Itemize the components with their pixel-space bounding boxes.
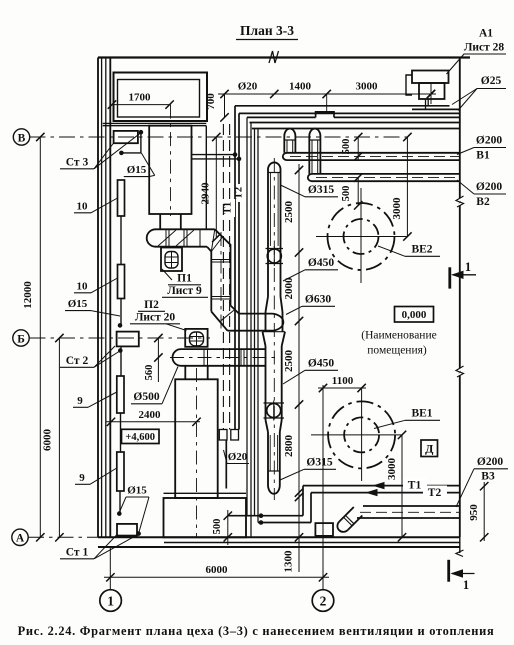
dim 1300 line <box>295 488 303 572</box>
svg-text:А1: А1 <box>479 28 493 40</box>
svg-text:Лист 28: Лист 28 <box>464 42 505 54</box>
wall left line4 axis1 <box>109 58 111 538</box>
svg-text:В3: В3 <box>481 471 495 483</box>
svg-text:План 3-3: План 3-3 <box>240 23 294 38</box>
svg-text:Ст 3: Ст 3 <box>66 157 89 169</box>
leader d20 bottom <box>224 450 228 464</box>
unit A1 dim stub <box>427 82 435 104</box>
break mark right wall bottom <box>456 550 464 557</box>
leader d25 line1 <box>452 89 477 105</box>
pipe crossover bump <box>316 112 334 118</box>
pipe T2 riser <box>238 113 240 429</box>
P1 duct seam pair1 <box>211 260 230 263</box>
svg-text:560: 560 <box>144 365 155 381</box>
dim 1100 text <box>332 375 354 387</box>
svg-text:9: 9 <box>79 472 85 484</box>
duct V1 top line <box>287 152 460 154</box>
duct V2 bottom line <box>312 180 460 182</box>
mark D box <box>421 440 438 457</box>
dim 1400 text <box>289 81 312 93</box>
label List 20 <box>130 312 180 324</box>
dim 950 text <box>468 504 480 521</box>
P2 duct left cap <box>173 349 181 366</box>
pipe T2 top horizontal <box>239 112 460 114</box>
P1 lower duct right cap <box>271 314 283 331</box>
main duct cap bottom <box>268 471 280 494</box>
svg-text:10: 10 <box>77 201 89 213</box>
leader St1 a <box>94 534 118 559</box>
break mark right wall upper <box>456 196 464 207</box>
St3 pipe link <box>121 132 140 153</box>
fan BE1 crosshair v <box>361 388 363 481</box>
leader d450 upper <box>283 270 305 281</box>
dim 3000 BE1 line <box>398 431 406 542</box>
main duct cap top <box>268 162 281 172</box>
main duct centerline <box>273 158 275 500</box>
duct V1 centerline <box>290 155 460 157</box>
P2 duct centerline <box>170 357 280 359</box>
svg-text:Ø15: Ø15 <box>127 164 147 176</box>
radiator R1 <box>118 180 125 216</box>
pipe T2 bottom run <box>311 492 460 494</box>
label T2 vertical <box>234 184 247 202</box>
label d15 St3 <box>124 164 149 177</box>
radiator R4 <box>117 452 124 491</box>
dim 1700 text <box>129 92 152 104</box>
svg-text:П1: П1 <box>177 273 192 285</box>
label d20 bottom <box>227 451 249 464</box>
svg-text:2500: 2500 <box>283 201 295 224</box>
svg-text:Ø450: Ø450 <box>308 358 334 370</box>
svg-text:помещения): помещения) <box>367 345 427 357</box>
P1 elbow2 outer <box>211 312 227 331</box>
label d200 V1 <box>474 135 506 162</box>
unit A1 pipe drop2 <box>427 99 429 106</box>
leader 9 lower <box>90 468 117 484</box>
radiator R3 <box>117 376 124 413</box>
svg-text:Рис. 2.24. Фрагмент плана цеха: Рис. 2.24. Фрагмент плана цеха (3–3) с н… <box>18 624 495 638</box>
main duct d450 walls mid <box>266 346 282 420</box>
leader d25 line2 <box>458 89 477 111</box>
pipe riser x254 <box>254 129 256 516</box>
svg-text:1700: 1700 <box>129 92 152 104</box>
dim 1300 text <box>283 550 295 573</box>
label d15 R4 <box>126 485 149 498</box>
leader V3 <box>456 469 474 507</box>
dim row top line <box>218 90 436 98</box>
duct B3 centerline <box>360 511 460 513</box>
pipe T1 riser <box>234 106 236 430</box>
P2 neck <box>185 366 207 380</box>
caption figure 2.24 <box>18 624 495 638</box>
level mark box <box>122 429 160 443</box>
leader d315 bottom <box>280 469 304 480</box>
label P1 <box>168 273 201 285</box>
wall right below stub <box>459 537 461 553</box>
pipe bottom T2 horizontal <box>258 522 311 524</box>
level 0.000 box <box>395 307 434 323</box>
pipe jog box1 <box>219 430 227 441</box>
svg-text:А: А <box>16 533 25 545</box>
pipe T1 top horizontal <box>235 105 450 107</box>
riser stub V1 walls <box>284 140 295 153</box>
axis 2 line <box>322 385 324 590</box>
pipe jog box2 <box>231 430 239 441</box>
axis B circle <box>13 129 29 145</box>
svg-text:3000: 3000 <box>391 197 403 220</box>
axis 1 line below wall <box>109 547 111 590</box>
pipe elbow dot2 <box>259 520 264 525</box>
label d25 <box>477 75 506 89</box>
wall left line1 <box>97 58 99 538</box>
duct V2 centerline <box>316 177 460 179</box>
dim 560 text <box>144 365 155 381</box>
dim 3000 BE2 line <box>403 133 411 241</box>
duct V1 bottom line <box>287 159 460 161</box>
svg-text:500: 500 <box>341 186 352 202</box>
unit A1 upper rect <box>412 71 449 84</box>
pipe T1 bottom run <box>303 485 460 487</box>
duct top y122 <box>250 122 460 124</box>
svg-text:Ø315: Ø315 <box>306 457 332 469</box>
label d15 mid <box>65 298 91 311</box>
P2 duct divisions <box>204 349 244 366</box>
svg-text:1: 1 <box>107 594 114 609</box>
P1 elbow1 seam2 <box>211 237 222 252</box>
dim 2500 upper text <box>283 201 295 224</box>
svg-text:500: 500 <box>212 519 223 535</box>
svg-text:Ø20: Ø20 <box>228 451 248 463</box>
svg-text:Ст 1: Ст 1 <box>66 547 89 559</box>
main duct d315 walls lower <box>268 432 280 471</box>
pipe R1 to R2 <box>120 216 122 265</box>
leader BE2 <box>378 246 405 256</box>
label d315 bottom <box>304 457 336 470</box>
label d200 V2 <box>474 181 506 208</box>
svg-text:950: 950 <box>468 504 480 521</box>
riser stub V2 walls <box>309 140 320 174</box>
label P2 <box>138 299 165 311</box>
unit A1 lower rect <box>419 83 445 99</box>
section mark lower <box>449 560 475 592</box>
svg-text:В2: В2 <box>476 196 490 208</box>
pipe R4 down <box>119 491 121 514</box>
pipe R3 to R4 <box>120 413 122 452</box>
P1 duct divisions <box>166 229 200 246</box>
svg-text:2940: 2940 <box>200 182 212 205</box>
svg-text:ВЕ1: ВЕ1 <box>411 408 432 420</box>
room name line1 <box>361 330 436 342</box>
pipe dot above St2 <box>118 323 123 328</box>
leader 10 lower <box>91 278 118 293</box>
svg-text:Т1: Т1 <box>408 480 422 492</box>
duct top y128 <box>252 128 460 130</box>
svg-text:Лист 20: Лист 20 <box>135 312 176 324</box>
P1 connection pipe1 <box>192 152 238 157</box>
P2 base extra top line <box>164 492 247 494</box>
dim 500 upper line <box>354 133 362 161</box>
label St2 <box>60 355 94 367</box>
P1 fan box <box>161 248 182 272</box>
fan BE1 outer circle <box>328 401 395 468</box>
leader d315 top <box>281 185 306 197</box>
svg-text:Ø500: Ø500 <box>133 391 159 403</box>
svg-text:Б: Б <box>17 333 25 345</box>
damper2 circle <box>267 401 281 421</box>
leader 9 upper <box>88 392 117 407</box>
axis A line <box>28 536 98 538</box>
svg-text:Ø200: Ø200 <box>476 181 502 193</box>
P2 duct top line <box>181 348 266 350</box>
platform outer rect <box>114 73 208 122</box>
pipe dashed riser2 <box>229 124 231 430</box>
leader 10 upper <box>91 198 118 213</box>
svg-text:1: 1 <box>465 260 471 274</box>
axis Bb circle <box>13 330 29 346</box>
main duct d450 walls upper <box>266 312 283 332</box>
svg-text:Ø15: Ø15 <box>127 485 147 497</box>
extension line x326 <box>326 94 328 112</box>
wall bottom mid <box>164 542 460 544</box>
svg-text:500: 500 <box>341 139 352 155</box>
label List 9 <box>162 285 208 297</box>
duct B3 bottom line <box>357 517 460 519</box>
label T1 bottom <box>403 478 427 492</box>
pipe elbow dot1 <box>259 513 264 518</box>
P1 right platform edge <box>205 126 207 230</box>
svg-text:Ø200: Ø200 <box>476 135 502 147</box>
P2 fan motor lines <box>190 332 204 346</box>
St3 pipe dot2 <box>119 151 124 156</box>
leader d15 R4 b <box>139 497 149 532</box>
dim 2000 text <box>283 277 295 300</box>
break mark top wall <box>269 51 279 63</box>
label 9 lower <box>75 472 90 484</box>
svg-text:+4,600: +4,600 <box>125 432 155 443</box>
svg-text:Т2: Т2 <box>234 187 245 199</box>
label d450 lower <box>305 358 338 371</box>
axis 2 circle <box>312 590 334 612</box>
St1 dot <box>136 531 141 536</box>
platform inner rect <box>118 80 200 118</box>
St2 dot <box>118 348 123 353</box>
axis B line <box>30 136 413 138</box>
pipe dashed riser1 <box>222 124 224 430</box>
label d630 <box>302 294 335 307</box>
leader P2 <box>166 324 187 331</box>
P1 elbow1 outer <box>215 229 231 305</box>
platform ledge line2 <box>103 125 207 127</box>
fan BE2 outer circle <box>328 203 395 270</box>
pipe riser x258 <box>257 129 259 523</box>
main duct cone1 <box>266 297 283 313</box>
dim 2500 lower text <box>283 350 295 373</box>
pipe jog up T1 <box>302 486 304 516</box>
main duct collar <box>263 332 286 346</box>
fan BE1 inner circle <box>344 417 379 452</box>
svg-text:1: 1 <box>463 578 469 592</box>
leader St1 b <box>94 535 138 559</box>
wall bottom inner <box>98 546 460 548</box>
arrow T1 <box>374 483 384 489</box>
riser stub V2 cap <box>309 129 320 140</box>
label d315 top <box>305 184 338 197</box>
svg-text:Ø15: Ø15 <box>68 298 88 310</box>
leader St2 b <box>94 351 120 367</box>
svg-text:Т2: Т2 <box>428 487 442 499</box>
damper1 circle <box>267 246 281 266</box>
wall left line3 <box>105 58 107 538</box>
dim 6000 bottom text <box>206 564 229 576</box>
svg-text:Ø630: Ø630 <box>305 294 331 306</box>
P2 fan box <box>185 329 207 347</box>
dim 2940 line <box>212 133 220 242</box>
P2 fan motor <box>190 332 204 346</box>
main duct d315 walls <box>268 173 281 297</box>
leader St2 a <box>94 346 115 367</box>
P2 chamber centerline <box>196 368 198 537</box>
label 10 lower <box>74 281 91 293</box>
dim 3000 BE1 text <box>386 458 398 481</box>
radiator St2 box <box>117 332 139 347</box>
leader d450 lower <box>283 370 305 384</box>
duct V2 top line <box>312 173 460 175</box>
radiator St3 box <box>114 131 138 143</box>
fan BE2 crosshair v <box>360 188 362 283</box>
leader d630 <box>286 306 302 314</box>
P1 chamber centerline <box>170 105 172 216</box>
dim 3000 BE2 text <box>391 197 403 220</box>
svg-text:Ø25: Ø25 <box>481 75 502 87</box>
svg-text:1400: 1400 <box>289 81 312 93</box>
break mark right wall lower <box>456 366 464 377</box>
svg-text:Д: Д <box>425 442 434 456</box>
svg-text:3000: 3000 <box>386 458 398 481</box>
svg-text:П2: П2 <box>144 299 159 311</box>
P2 duct bottom line <box>181 365 266 367</box>
svg-text:2: 2 <box>320 594 327 609</box>
dim 950 line <box>480 482 488 542</box>
leader d15 R4 a <box>120 497 127 512</box>
leader d500 <box>162 367 178 404</box>
label A1 <box>479 28 493 40</box>
svg-text:В1: В1 <box>476 150 490 162</box>
label d500 <box>131 391 162 404</box>
dim 1700 line <box>108 100 174 108</box>
svg-text:9: 9 <box>77 395 83 407</box>
dim chain right line <box>295 164 303 501</box>
svg-text:Ст 2: Ст 2 <box>66 355 89 367</box>
dim 500 lower line <box>354 173 362 209</box>
pipe d25 from A1 horizontal <box>412 108 460 110</box>
P1 fan motor <box>165 252 178 269</box>
title Plan 3-3 <box>236 23 298 40</box>
svg-text:Ø20: Ø20 <box>238 81 258 93</box>
label BE2 <box>405 244 440 257</box>
label d450 upper <box>305 257 338 270</box>
dim 500 bottom text <box>212 519 223 535</box>
svg-text:ВЕ2: ВЕ2 <box>411 244 432 256</box>
dim 2400 text <box>139 409 162 421</box>
svg-text:Ø200: Ø200 <box>477 456 503 468</box>
dim 6000 left text <box>42 429 54 452</box>
fan BE2 inner circle <box>344 219 379 254</box>
dim d20 text <box>238 81 258 93</box>
platform ledge line1 <box>103 122 207 124</box>
P1 lower duct bottom <box>228 330 272 332</box>
unit A1 pipe drop1 <box>425 99 427 109</box>
arrow T2 <box>367 490 377 496</box>
svg-text:2800: 2800 <box>283 435 295 458</box>
leader A1 <box>447 54 507 74</box>
dim 2800 text <box>283 435 295 458</box>
label St3 <box>60 157 94 169</box>
label T2 bottom <box>423 486 447 500</box>
fan BE2 crosshair h <box>316 236 407 238</box>
svg-text:2000: 2000 <box>283 277 295 300</box>
dim 2400 line <box>106 418 201 426</box>
leader d15 mid <box>91 311 120 316</box>
wall top <box>98 56 470 58</box>
leader BE1 <box>374 420 405 428</box>
dim 3000 top text <box>356 81 379 93</box>
svg-text:6000: 6000 <box>42 429 54 452</box>
P2 base rect <box>164 498 247 537</box>
St3 valve dot <box>139 130 144 135</box>
svg-text:Ø315: Ø315 <box>308 184 334 196</box>
dim 500 bottom line <box>224 510 232 545</box>
unit A1 intake elbow <box>406 75 412 95</box>
dim 500 lower text <box>341 186 352 202</box>
dim 6000 left line <box>55 334 63 542</box>
P1 elbow1 seam1 <box>211 229 215 251</box>
radiator St1 box <box>117 524 137 536</box>
label 10 upper <box>74 201 91 213</box>
label BE1 <box>405 408 440 421</box>
St2 pipe down <box>120 346 122 376</box>
dim 700 text <box>205 93 217 110</box>
svg-text:(Наименование: (Наименование <box>361 330 436 342</box>
pipe R2 down <box>120 299 122 326</box>
P1 duct top line <box>155 228 215 230</box>
duct B3 angled stub <box>335 507 362 534</box>
svg-text:2400: 2400 <box>139 409 162 421</box>
svg-text:Лист 9: Лист 9 <box>167 285 202 297</box>
damper2 flanges <box>264 403 285 418</box>
wall bottom outer <box>98 536 460 538</box>
P1 elbow1 inner <box>207 247 211 312</box>
duct V1 left cap <box>283 153 287 160</box>
pipe riser x251 <box>250 123 252 538</box>
axis 1 circle <box>100 590 122 612</box>
pipe dot above St1 <box>117 511 122 516</box>
leader d15 St3 <box>141 153 154 177</box>
riser stub V1 cap <box>284 129 295 140</box>
dim 12000 text <box>22 281 34 309</box>
duct V2 left cap <box>308 174 312 181</box>
leader St3 b <box>94 134 140 169</box>
P1 fan motor lines <box>165 252 178 269</box>
P1 vertical duct centerline <box>220 232 222 330</box>
P1 chamber rect <box>149 126 191 214</box>
wall left line2 <box>101 58 103 538</box>
label T1 vertical <box>223 199 236 217</box>
duct B3 top line <box>363 505 460 507</box>
dim 700 line <box>220 94 228 122</box>
leader P1 <box>162 269 172 280</box>
P1 elbow2 inner <box>231 306 240 314</box>
pipe jog up T2 <box>310 493 312 523</box>
